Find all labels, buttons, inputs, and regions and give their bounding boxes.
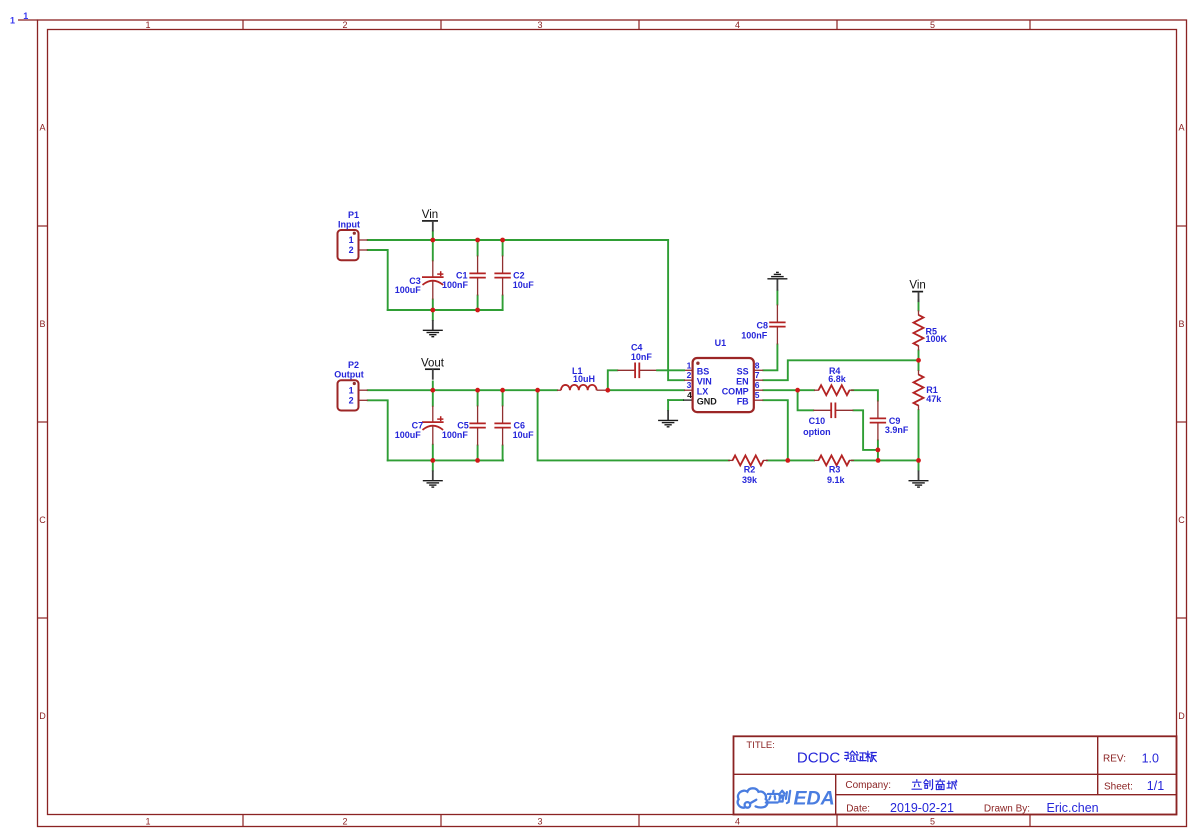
wire C3 bottom lead bbox=[432, 300, 434, 311]
svg-text:10uH: 10uH bbox=[573, 374, 595, 384]
U1 pin 1 stub bbox=[684, 369, 693, 371]
capacitor C5 bbox=[477, 406, 479, 424]
svg-text:C2: C2 bbox=[513, 270, 525, 280]
svg-text:C8: C8 bbox=[757, 320, 769, 330]
svg-text:7: 7 bbox=[755, 370, 760, 380]
svg-text:100uF: 100uF bbox=[395, 285, 422, 295]
svg-text:Vin: Vin bbox=[422, 209, 438, 221]
wire C2 bottom lead bbox=[502, 296, 504, 311]
LCEDA logo text 立创 bbox=[766, 791, 780, 803]
svg-text:Input: Input bbox=[338, 219, 360, 229]
svg-text:C1: C1 bbox=[456, 270, 468, 280]
svg-text:1.0: 1.0 bbox=[1142, 751, 1159, 765]
svg-text:Vin: Vin bbox=[909, 280, 925, 292]
svg-text:D: D bbox=[1178, 711, 1185, 721]
svg-text:EN: EN bbox=[736, 377, 749, 387]
wire C6 top lead bbox=[502, 390, 504, 405]
svg-text:5: 5 bbox=[755, 390, 760, 400]
svg-text:1/1: 1/1 bbox=[1147, 779, 1164, 793]
wire EN node to R1 top bbox=[918, 360, 920, 370]
wire C1 top lead bbox=[477, 240, 479, 256]
wire C9 bottom lead bbox=[877, 440, 879, 460]
wire C5 bottom lead bbox=[477, 446, 479, 461]
resistor R5 bbox=[918, 310, 920, 315]
svg-text:FB: FB bbox=[737, 396, 749, 406]
ground output rail bbox=[432, 460, 434, 470]
svg-text:Company:: Company: bbox=[845, 780, 891, 791]
svg-text:10uF: 10uF bbox=[513, 280, 535, 290]
svg-text:P2: P2 bbox=[348, 360, 359, 370]
svg-text:1: 1 bbox=[349, 385, 354, 395]
svg-text:B: B bbox=[1178, 319, 1184, 329]
svg-text:P1: P1 bbox=[348, 210, 359, 220]
wire P2 pin2 to output ground rail bbox=[368, 400, 388, 460]
svg-text:DCDC: DCDC bbox=[797, 750, 840, 767]
svg-text:SS: SS bbox=[737, 367, 749, 377]
title block company name Chinese 立创商城 bbox=[912, 780, 922, 790]
svg-text:6: 6 bbox=[755, 380, 760, 390]
svg-text:8: 8 bbox=[755, 360, 760, 370]
resistor R2 bbox=[728, 459, 733, 461]
ground feedback rail bbox=[918, 460, 920, 470]
title block line under TITLE row bbox=[734, 773, 1177, 775]
ground C8 inverted bbox=[776, 279, 778, 291]
wire R3 to C9 node bbox=[852, 459, 878, 461]
junction dots input rail bbox=[430, 238, 435, 243]
svg-text:4: 4 bbox=[687, 390, 692, 400]
wire C10 right to C9 bottom node bbox=[853, 410, 878, 450]
wire Vin netflag stem right bbox=[918, 300, 920, 310]
svg-text:TITLE:: TITLE: bbox=[746, 740, 775, 751]
capacitor C8 bbox=[776, 305, 778, 323]
wire input rail Vin bbox=[368, 239, 668, 241]
svg-text:4: 4 bbox=[735, 816, 740, 826]
svg-text:6.8k: 6.8k bbox=[828, 374, 847, 384]
wire C3 top lead bbox=[432, 240, 434, 260]
svg-text:100nF: 100nF bbox=[442, 430, 469, 440]
svg-text:1: 1 bbox=[349, 235, 354, 245]
svg-text:1: 1 bbox=[23, 11, 28, 21]
svg-text:COMP: COMP bbox=[722, 387, 749, 397]
svg-text:3: 3 bbox=[537, 816, 542, 826]
svg-text:GND: GND bbox=[697, 396, 718, 406]
svg-text:2: 2 bbox=[349, 245, 354, 255]
svg-text:39k: 39k bbox=[742, 475, 758, 485]
wire COMP node to R4 left bbox=[798, 389, 814, 391]
netflag Vin input bbox=[422, 220, 438, 222]
svg-text:C: C bbox=[1178, 515, 1185, 525]
svg-text:R3: R3 bbox=[829, 464, 841, 474]
svg-text:BS: BS bbox=[697, 367, 710, 377]
svg-text:Output: Output bbox=[334, 370, 364, 380]
wire COMP pin to R4 bbox=[763, 389, 797, 391]
wire input ground rail bbox=[388, 309, 503, 311]
svg-text:5: 5 bbox=[930, 816, 935, 826]
wire R1 bottom to ground rail bbox=[918, 410, 920, 460]
svg-text:LX: LX bbox=[697, 387, 709, 397]
svg-text:2019-02-21: 2019-02-21 bbox=[890, 801, 954, 815]
svg-text:option: option bbox=[803, 427, 831, 437]
svg-text:A: A bbox=[39, 123, 45, 133]
svg-text:2: 2 bbox=[342, 20, 347, 30]
wire L1 to LX pin bbox=[608, 389, 684, 391]
capacitor C2 bbox=[502, 256, 504, 274]
wire EN pin to EN divider node bbox=[763, 360, 918, 380]
svg-text:B: B bbox=[39, 319, 45, 329]
svg-text:U1: U1 bbox=[715, 338, 727, 348]
wire C5 top lead bbox=[477, 390, 479, 405]
frame column ticks bbox=[242, 20, 244, 30]
capacitor C4 bbox=[608, 370, 618, 390]
svg-text:100nF: 100nF bbox=[741, 331, 768, 341]
netflag Vin right bbox=[912, 291, 923, 293]
junction dot EN divider node bbox=[916, 358, 921, 363]
svg-text:1: 1 bbox=[145, 816, 150, 826]
svg-text:Date:: Date: bbox=[846, 803, 870, 814]
U1 pin 7 stub bbox=[754, 379, 764, 381]
wire C6 bottom lead bbox=[502, 446, 504, 461]
title block logo cell divider bbox=[835, 774, 837, 814]
svg-text:R2: R2 bbox=[744, 464, 756, 474]
resistor R1 bbox=[918, 370, 920, 375]
junction dots output ground rail bbox=[430, 458, 435, 463]
svg-text:10nF: 10nF bbox=[631, 352, 653, 362]
capacitor C3 polarized bbox=[432, 260, 434, 277]
sheet tab underline bbox=[18, 19, 38, 21]
svg-text:3.9nF: 3.9nF bbox=[885, 425, 909, 435]
svg-text:1: 1 bbox=[687, 360, 692, 370]
svg-text:47k: 47k bbox=[926, 394, 942, 404]
U1 pin 2 stub bbox=[684, 379, 693, 381]
wire Vin netflag stem bbox=[432, 232, 434, 241]
wire Vout netflag stem bbox=[432, 382, 434, 391]
wire output ground rail bbox=[388, 459, 503, 461]
capacitor C7 polarized bbox=[432, 406, 434, 422]
wire C7 bottom lead bbox=[432, 445, 434, 461]
title block line under Company row bbox=[836, 794, 1177, 796]
svg-text:1: 1 bbox=[145, 20, 150, 30]
title block border bbox=[734, 736, 1177, 814]
capacitor C9 bbox=[877, 401, 879, 419]
svg-text:2: 2 bbox=[342, 816, 347, 826]
wire C2 top lead bbox=[502, 240, 504, 256]
wire FB node to R3 bbox=[788, 459, 814, 461]
wire C8 top lead bbox=[776, 291, 778, 305]
wire SS pin to C8 bbox=[763, 345, 777, 371]
svg-text:Vout: Vout bbox=[421, 357, 445, 369]
svg-text:2: 2 bbox=[349, 396, 354, 406]
svg-text:9.1k: 9.1k bbox=[827, 475, 846, 485]
svg-text:2: 2 bbox=[687, 370, 692, 380]
wire Vout rail left bbox=[368, 389, 557, 391]
svg-text:100uF: 100uF bbox=[395, 430, 422, 440]
svg-text:REV:: REV: bbox=[1103, 754, 1126, 765]
svg-text:100nF: 100nF bbox=[442, 280, 469, 290]
connector P1 bbox=[338, 230, 359, 260]
svg-text:100K: 100K bbox=[926, 334, 948, 344]
svg-text:Sheet:: Sheet: bbox=[1104, 782, 1133, 793]
svg-text:D: D bbox=[39, 711, 46, 721]
U1 pin 8 stub bbox=[754, 369, 764, 371]
wire R5 bottom to EN node bbox=[918, 350, 920, 360]
LCEDA logo cloud icon bbox=[738, 788, 768, 807]
svg-text:C10: C10 bbox=[809, 416, 826, 426]
svg-text:VIN: VIN bbox=[697, 377, 712, 387]
netflag Vout bbox=[425, 368, 440, 370]
svg-text:10uF: 10uF bbox=[513, 430, 535, 440]
resistor R4 bbox=[814, 389, 819, 391]
wire C1 bottom lead bbox=[477, 296, 479, 311]
junction dots input ground rail bbox=[430, 308, 435, 313]
capacitor C6 bbox=[502, 406, 504, 424]
connector P2 bbox=[338, 380, 359, 410]
ground input rail bbox=[432, 310, 434, 320]
wire U1 GND pin to ground bbox=[668, 399, 683, 401]
wire FB pin to feedback rail bbox=[763, 400, 788, 460]
wire C7 top lead bbox=[432, 390, 434, 406]
svg-text:C7: C7 bbox=[412, 420, 424, 430]
junction dots feedback rail bbox=[785, 458, 790, 463]
wire P1 pin2 to input ground rail bbox=[368, 250, 388, 310]
wire input rail down to VIN pin bbox=[668, 240, 684, 380]
svg-text:EDA: EDA bbox=[794, 788, 835, 810]
svg-text:3: 3 bbox=[687, 380, 692, 390]
resistor R3 bbox=[814, 459, 819, 461]
inductor L1 bbox=[557, 389, 561, 391]
op-amp U1 regulator box bbox=[693, 358, 754, 412]
wire C9 node to ground node bbox=[878, 459, 918, 461]
U1 pin1 marker dot bbox=[696, 362, 699, 365]
U1 pin 6 stub bbox=[754, 389, 764, 391]
wire Vout to feedback rail bbox=[538, 390, 729, 460]
svg-text:Eric.chen: Eric.chen bbox=[1047, 801, 1099, 815]
junction dot COMP node bbox=[795, 388, 800, 393]
svg-text:C: C bbox=[39, 515, 46, 525]
frame row ticks bbox=[38, 225, 48, 227]
svg-text:A: A bbox=[1178, 123, 1184, 133]
title block REV cell divider bbox=[1097, 736, 1099, 794]
svg-text:4: 4 bbox=[735, 20, 740, 30]
svg-text:Drawn By:: Drawn By: bbox=[984, 803, 1030, 814]
capacitor C10 bbox=[813, 409, 831, 411]
U1 pin 4 stub bbox=[683, 399, 693, 401]
ground U1 GND pin bbox=[667, 400, 669, 410]
svg-text:1: 1 bbox=[10, 15, 15, 25]
wire COMP node down to C10 bbox=[798, 390, 814, 410]
svg-text:C4: C4 bbox=[631, 342, 643, 352]
wire R2 to FB node bbox=[767, 459, 788, 461]
junction dots Vout rail bbox=[430, 388, 435, 393]
wire R4 right to C9 top bbox=[852, 390, 878, 400]
junction dot C9 bottom node bbox=[876, 448, 881, 453]
U1 pin 5 stub bbox=[754, 399, 764, 401]
sheet title Chinese text 验证板 bbox=[845, 751, 856, 761]
svg-text:5: 5 bbox=[930, 20, 935, 30]
svg-text:3: 3 bbox=[537, 20, 542, 30]
U1 pin 3 stub bbox=[684, 389, 693, 391]
capacitor C1 bbox=[477, 256, 479, 274]
